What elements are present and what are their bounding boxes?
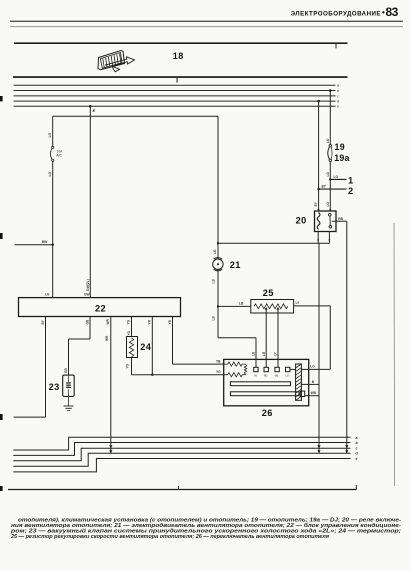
bottom bus line b [13, 443, 350, 456]
svg-text:LO: LO [285, 374, 290, 378]
svg-text:YG: YG [127, 330, 131, 335]
svg-text:HI: HI [254, 374, 257, 378]
wire: WB output of 26 [305, 391, 319, 396]
svg-text:LB: LB [212, 279, 216, 284]
bottom bus line a [13, 437, 350, 450]
junction on LG wire [52, 244, 54, 246]
svg-text:RB: RB [338, 217, 343, 221]
svg-text:LG: LG [45, 293, 50, 297]
svg-text:a: a [337, 84, 339, 88]
svg-text:LB: LB [262, 351, 266, 356]
wire: YB from 22 to switch 26 [173, 317, 226, 365]
svg-text:WR: WR [105, 335, 109, 341]
wire: bus b drop LG to fuse 19 [326, 89, 332, 144]
wire: B vertical from relay to bottom bus [317, 243, 320, 453]
svg-text:LY: LY [274, 351, 278, 356]
top bus end labels a-e [337, 84, 340, 109]
unit 22 pin labels [41, 318, 172, 324]
node 1 [329, 175, 353, 185]
svg-text:19a: 19a [334, 153, 349, 163]
svg-text:ЭЛЕКТРООБОРУДОВАНИЕ: ЭЛЕКТРООБОРУДОВАНИЕ [291, 11, 381, 18]
svg-text:e: e [356, 457, 358, 461]
svg-text:LG: LG [326, 202, 330, 207]
wire: WR from 22 to bottom bus [105, 317, 113, 454]
svg-text:LG: LG [326, 172, 330, 177]
svg-text:19: 19 [335, 142, 346, 152]
wire: top loop horizontal [53, 115, 218, 117]
svg-text:BY: BY [41, 319, 45, 324]
svg-text:b: b [356, 441, 359, 445]
svg-text:21: 21 [230, 260, 241, 270]
switch 26 slider bar 2 [230, 392, 299, 396]
bottom bus line d [13, 453, 350, 466]
wire: left vertical LG (to unit 22) [52, 116, 54, 146]
wire: LB branch down to switch 26 [212, 306, 256, 359]
header text [291, 5, 399, 19]
svg-text:M2: M2 [264, 374, 268, 378]
svg-text:YG: YG [125, 363, 129, 368]
resistor 25 taps [262, 307, 280, 359]
switch 26 slider rail (hatched) [296, 364, 302, 400]
bus line b (top) [14, 90, 336, 92]
top feed line (thick bus) [14, 42, 348, 48]
wire: 25 right LY to slider contact of 26 [294, 301, 331, 369]
svg-text:22: 22 [95, 303, 106, 313]
svg-text:10A: 10A [56, 149, 63, 153]
svg-text:LG: LG [48, 132, 52, 137]
svg-text:24: 24 [140, 342, 152, 352]
wire: YR from 22 joins YG line [151, 317, 153, 376]
junction to relay bottom wire [217, 242, 219, 244]
bus line a (top) [14, 84, 336, 86]
svg-text:BY: BY [322, 185, 327, 189]
resistor 25 box [251, 288, 294, 313]
svg-text:18: 18 [173, 51, 184, 61]
svg-text:YB: YB [168, 319, 172, 324]
bottom bus end labels [356, 436, 359, 461]
wire: relay output RB down to bottom bus [336, 217, 348, 453]
svg-text:YG: YG [127, 319, 131, 324]
right margin rule [393, 223, 396, 486]
bottom bus line e [13, 459, 350, 472]
header double rule [10, 21, 403, 27]
svg-text:GW: GW [84, 293, 90, 297]
relay 20 bottom pins [317, 232, 330, 244]
wire: 24 output YG to switch 26 [125, 358, 225, 375]
svg-text:b: b [337, 89, 339, 93]
fuse 10A A/C [50, 146, 63, 161]
svg-text:23: 23 [49, 382, 60, 392]
node 2 [317, 185, 353, 196]
svg-text:GB: GB [86, 319, 90, 324]
svg-text:GB: GB [64, 368, 68, 373]
svg-text:BW: BW [42, 240, 47, 244]
svg-text:YB: YB [216, 359, 221, 363]
switch 26 contact LO [285, 367, 295, 377]
caption text [10, 517, 402, 540]
svg-text:LG: LG [213, 249, 217, 254]
motor 21 [213, 258, 223, 271]
switch 26 bar 2 end contact [300, 391, 304, 396]
wire: right vertical of loop down to motor 21 [217, 116, 219, 259]
switch 26 resistor 1 [224, 362, 246, 366]
svg-text:1: 1 [348, 175, 353, 185]
bus line e (top) [14, 105, 336, 107]
svg-text:M1: M1 [275, 374, 279, 378]
relay 20 coil [317, 213, 320, 230]
second thick bus line [13, 76, 348, 82]
svg-text:25 — резистор регулировки скор: 25 — резистор регулировки скорости венти… [10, 534, 329, 540]
node E junction on bus e [89, 105, 92, 108]
svg-text:LG: LG [326, 138, 330, 143]
relay 20 contacts [329, 214, 337, 229]
svg-text:LB: LB [212, 316, 216, 321]
svg-text:25: 25 [263, 288, 274, 298]
relay 20 box [315, 209, 337, 232]
svg-text:LB: LB [239, 301, 244, 305]
unit 22 box [19, 293, 181, 317]
wire: bus d drop BY to node 2 and relay coil [314, 100, 320, 211]
bottom bus line c [13, 448, 350, 461]
switch 26 resistor 2 [224, 373, 246, 377]
bus line d (top) [14, 100, 336, 102]
wire: fuse to node 1 and relay [326, 162, 330, 211]
svg-text:c: c [337, 94, 339, 98]
bus line c (top) [14, 95, 336, 97]
svg-text:BY: BY [314, 201, 318, 206]
svg-text:c: c [356, 447, 358, 451]
bottom border line [8, 485, 357, 490]
svg-text:WR: WR [106, 318, 110, 324]
svg-text:LG: LG [48, 171, 52, 176]
svg-text:LY: LY [296, 301, 301, 305]
fuse 19 / 19a [328, 144, 332, 161]
svg-text:A/C: A/C [56, 154, 62, 158]
vacuum valve 23 [49, 375, 75, 396]
thermistor 24 [127, 337, 152, 358]
wire: horizontal to relay 20 bottom pins [218, 242, 329, 244]
svg-text:B: B [312, 380, 315, 384]
svg-text:LG: LG [310, 365, 315, 369]
switch 26 box [224, 359, 309, 405]
svg-text:83: 83 [386, 5, 399, 19]
svg-text:YR: YR [148, 319, 152, 324]
wire: 22 to thermistor 24 [131, 317, 133, 337]
wire: B output of 26 [302, 380, 320, 385]
svg-text:d: d [337, 100, 340, 104]
switch 26 contact HI [254, 359, 258, 377]
ground (valve 23) [64, 396, 74, 410]
svg-text:E: E [93, 108, 96, 113]
svg-text:YG: YG [216, 370, 221, 374]
svg-text:d: d [356, 452, 359, 456]
wire: stub from left margin BW [15, 244, 53, 246]
switch 26 contact M1 [275, 359, 280, 377]
svg-text:GW(2L): GW(2L) [86, 279, 90, 291]
svg-text:LG: LG [334, 175, 339, 179]
wire: BY open stub from 22 [14, 317, 46, 418]
switch 26 resistor link [244, 364, 246, 375]
wire: motor 21 to resistor 25 [212, 270, 251, 308]
switch 26 slider bar 1 [230, 382, 290, 386]
switch 26 contact M2 [264, 359, 269, 377]
svg-text:2: 2 [348, 186, 353, 196]
wire: GB from 22 to valve 23 [64, 317, 90, 376]
wire: GW(2L) vertical from node E to unit 22 [89, 106, 91, 297]
svg-text:26: 26 [262, 408, 273, 418]
heater unit sketch (item 18 pictogram) [98, 51, 135, 72]
svg-text:20: 20 [296, 216, 307, 226]
left margin print marks [0, 96, 3, 491]
svg-text:a: a [356, 436, 358, 440]
svg-text:LB: LB [252, 351, 256, 356]
svg-text:e: e [337, 105, 339, 109]
svg-text:WB: WB [311, 391, 317, 395]
